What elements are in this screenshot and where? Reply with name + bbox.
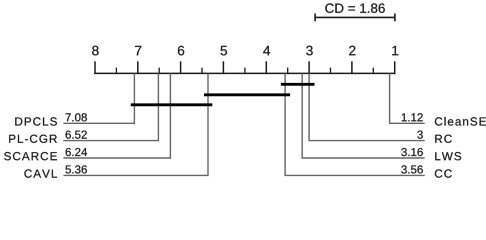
clique bar DPCLS-PLCGR-SCARCE-CAVL	[131, 103, 213, 106]
minor tick 2.5	[330, 68, 332, 75]
name DPCLS	[15, 117, 57, 125]
axis number 1	[392, 46, 398, 55]
major tick 8	[94, 61, 96, 74]
name CleanSE	[435, 117, 486, 126]
value 5.36	[66, 165, 87, 173]
connector CC rank 3.56	[285, 73, 425, 175]
axis line	[94, 72, 395, 74]
major tick 2	[351, 61, 353, 74]
minor tick 1.5	[372, 68, 374, 75]
minor tick 3.5	[287, 68, 289, 75]
major tick 6	[180, 61, 182, 74]
clique bar CAVL-CC	[204, 93, 290, 96]
major tick 4	[265, 61, 267, 74]
minor tick 4.5	[244, 68, 246, 75]
axis number 4	[263, 46, 270, 55]
axis number 6	[178, 46, 184, 56]
major tick 1	[394, 61, 396, 74]
minor tick 7.5	[115, 68, 117, 75]
value 7.08	[66, 113, 87, 121]
name RC	[435, 135, 452, 143]
value 3.16	[401, 148, 422, 156]
value 1.12	[402, 113, 423, 121]
CD bracket left cap	[314, 14, 316, 22]
connector PL-CGR rank 6.52	[63, 73, 158, 140]
connector RC rank 3	[309, 73, 425, 140]
axis number 5	[221, 46, 228, 56]
value 3.56	[401, 165, 422, 173]
connector SCARCE rank 6.24	[63, 73, 170, 158]
CD bracket line	[315, 16, 395, 18]
name LWS	[435, 152, 461, 160]
CD label	[325, 3, 385, 13]
value 6.24	[66, 148, 87, 156]
name CAVL	[24, 169, 57, 177]
axis number 8	[92, 46, 98, 56]
connector LWS rank 3.16	[302, 73, 425, 158]
connector CAVL rank 5.36	[63, 73, 208, 175]
major tick 3	[308, 61, 310, 74]
CD bracket right cap	[394, 14, 396, 22]
name SCARCE	[4, 152, 57, 160]
axis number 2	[349, 46, 355, 56]
value 6.52	[66, 131, 87, 139]
name PL-CGR	[9, 135, 57, 143]
name CC	[435, 169, 452, 177]
value 3	[417, 131, 423, 139]
axis number 3	[306, 46, 313, 56]
axis number 7	[135, 46, 141, 55]
minor tick 6.5	[158, 68, 160, 75]
connector DPCLS rank 7.08	[63, 73, 134, 123]
connector CleanSE rank 1.12	[390, 73, 425, 123]
minor tick 5.5	[201, 68, 203, 75]
major tick 7	[137, 61, 139, 74]
major tick 5	[222, 61, 224, 74]
clique bar RC-LWS-CC	[281, 83, 315, 86]
